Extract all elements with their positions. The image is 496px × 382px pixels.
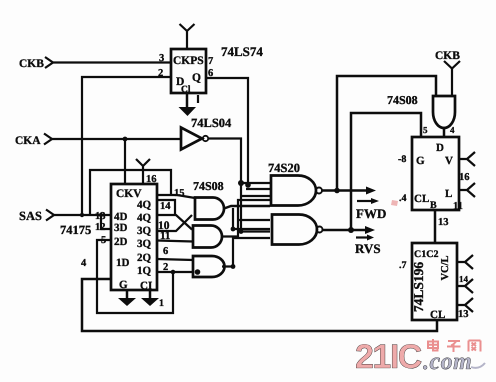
counter U6 74LS196 (411, 243, 457, 321)
arrowhead FWD wire (366, 187, 376, 195)
NAND gate B 74S20 (272, 215, 323, 245)
svg-text:74175: 74175 (60, 223, 91, 237)
wire 4Qbar pin14 cross to G2 (157, 215, 192, 230)
svg-text:5: 5 (423, 125, 428, 135)
svg-text:CL: CL (414, 193, 429, 205)
wire G to bottom bus (82, 279, 437, 331)
input connector CKA (15, 134, 52, 148)
svg-text:-8: -8 (398, 154, 406, 165)
svg-text:15: 15 (174, 188, 185, 199)
svg-text:CKB: CKB (19, 58, 44, 70)
flip-flop U1 74LS74 (171, 49, 206, 95)
input connector CKB top (435, 50, 460, 96)
svg-text:4Q: 4Q (137, 199, 152, 211)
svg-text:3D: 3D (114, 222, 128, 234)
junction dot 1Q feedback (171, 270, 176, 275)
wire 3Q pin10 cross to G1 (157, 215, 192, 231)
svg-text:D: D (436, 142, 444, 154)
AND gate U4 74S08 vertical (433, 96, 455, 128)
svg-text:CKA: CKA (15, 135, 41, 147)
wire CKA to inverter (52, 138, 181, 140)
svg-text:VC/L: VC/L (440, 255, 451, 280)
svg-text:14: 14 (459, 274, 469, 284)
svg-text:74S08: 74S08 (387, 93, 418, 107)
wire 4Q pin15 to G1 (157, 195, 195, 198)
svg-text:2Q: 2Q (137, 252, 152, 264)
svg-text:11: 11 (453, 201, 463, 212)
svg-text:7: 7 (208, 56, 213, 67)
NAND gate A 74S20 (271, 176, 322, 206)
wire U2 to NAND A in1 (241, 182, 270, 184)
svg-text:.4: .4 (399, 193, 407, 204)
wire U1 Q output down (206, 78, 248, 186)
wire 3Qbar pin11 to G2 (157, 241, 193, 242)
arrow above FWD label (357, 198, 379, 204)
wire U2 output down (209, 139, 242, 232)
feedback loop 4Q to 4D (90, 170, 171, 215)
wire NAND B output RVS (323, 229, 368, 232)
junction dot CKA clock node (123, 137, 128, 142)
svg-text:12: 12 (95, 222, 106, 233)
ground G below U3 (118, 290, 136, 306)
wire stub above pin14 (157, 200, 175, 215)
svg-text:16: 16 (146, 174, 157, 185)
register U3 74175 (111, 184, 157, 292)
wire CKB to U1 pin3 (53, 61, 171, 63)
ground CL below U3 (141, 290, 164, 309)
VCC symbol above U1 (180, 24, 195, 49)
svg-text:V: V (445, 155, 453, 167)
AND gate G1 74S08 (195, 198, 224, 220)
connector fork L pin11 (453, 183, 475, 212)
wire G1 output to NAND A (224, 206, 270, 209)
input connector CKB (19, 57, 53, 70)
svg-text:Q: Q (192, 72, 201, 84)
svg-text:14: 14 (160, 201, 171, 212)
svg-text:74S08: 74S08 (193, 179, 224, 193)
svg-text:.7: .7 (399, 260, 407, 271)
feedback loop 1Q to 2D (97, 240, 173, 313)
svg-text:L: L (445, 188, 452, 200)
svg-text:74S20: 74S20 (268, 161, 300, 175)
svg-text:13: 13 (458, 309, 469, 320)
wire SAS to U3 4D (54, 214, 111, 216)
watermark text dianziwang (428, 339, 481, 352)
wire U5 B to U6 pin13 (434, 210, 437, 243)
wire to NAND A in3 (242, 195, 270, 197)
arrow above RVS label (356, 235, 374, 241)
AND gate G2 74S08 (193, 226, 222, 248)
svg-text:1: 1 (159, 298, 164, 309)
wire NAND A output FWD (322, 189, 368, 192)
svg-text:C1C2: C1C2 (414, 249, 438, 260)
watermark fleck (391, 200, 398, 206)
svg-text:3Q: 3Q (137, 238, 152, 250)
svg-text:SAS: SAS (19, 209, 42, 223)
svg-text:74LS74: 74LS74 (221, 44, 263, 59)
svg-text:74LS196: 74LS196 (411, 262, 426, 313)
svg-text:16: 16 (459, 172, 470, 183)
svg-text:G: G (119, 279, 128, 291)
connector fork V pin16 (459, 152, 475, 183)
junction dot SAS/D node (80, 213, 84, 217)
feedback loop FWD to U4 input (337, 76, 436, 191)
svg-text:3Q: 3Q (137, 225, 152, 237)
inverter U2 74LS04 (181, 128, 208, 150)
svg-text:4: 4 (450, 125, 455, 135)
wire U4 output to U5 D (443, 127, 446, 137)
wire 3D branch (101, 215, 111, 229)
svg-text:B: B (430, 200, 437, 211)
svg-text:3: 3 (159, 53, 164, 64)
connector fork U6 b (457, 279, 473, 293)
svg-text:2D: 2D (114, 236, 128, 248)
wire 1Q pin2 to G3 (157, 271, 193, 273)
junction dot U2 line A (238, 180, 244, 186)
wire U2 to NAND B in3 (241, 230, 270, 232)
arrowhead RVS wire (365, 226, 375, 234)
svg-text:CKPS: CKPS (173, 55, 204, 67)
svg-text:G: G (416, 155, 425, 167)
svg-text:6: 6 (163, 246, 168, 257)
ground below U1 (179, 93, 199, 116)
wire G2 branch to NAND B (238, 219, 270, 221)
svg-text:CL: CL (430, 309, 445, 321)
svg-text:.com: .com (423, 349, 472, 375)
svg-text:FWD: FWD (356, 206, 386, 221)
svg-text:1Q: 1Q (137, 265, 152, 277)
svg-text:CKB: CKB (435, 50, 460, 62)
svg-text:21IC: 21IC (355, 338, 422, 376)
wire G3 output to NAND B (222, 238, 270, 267)
junction dot Q line (245, 182, 251, 188)
svg-text:13: 13 (95, 211, 106, 222)
svg-text:1D: 1D (116, 257, 130, 269)
connector fork U6 a (457, 255, 473, 269)
junction dot G1 branch (231, 227, 236, 232)
svg-text:13: 13 (438, 217, 449, 228)
junction dot SAS/3D node (99, 213, 103, 217)
feedback loop RVS to U5 pin5 (351, 113, 421, 230)
svg-text:4: 4 (81, 258, 87, 269)
input connector SAS (19, 209, 54, 223)
junction dot FWD loop (334, 188, 340, 194)
AND gate G3 74S08 (193, 256, 224, 277)
junction dot 1Q gate3 (195, 269, 201, 275)
VCC pin16 symbol above U3 (136, 159, 157, 185)
junction dot RVS loop (348, 227, 354, 233)
wire G2 output up to NAND A (222, 200, 270, 237)
svg-text:74LS04: 74LS04 (191, 116, 232, 130)
junction dot U2 line B (239, 229, 244, 234)
junction dot G3 output (231, 264, 236, 269)
wire G1 output branch to NAND B (233, 208, 270, 229)
wire 2Q pin6 to G3 (157, 259, 193, 260)
connector fork U6 c (457, 298, 473, 312)
wire U1 D pin2 to SAS node (82, 77, 171, 215)
wire clock node to U3 (124, 139, 126, 184)
svg-text:4Q: 4Q (137, 212, 152, 224)
wire Q to NAND A in2 (246, 188, 270, 190)
counter U5 box (412, 137, 459, 211)
svg-text:RVS: RVS (355, 241, 381, 256)
